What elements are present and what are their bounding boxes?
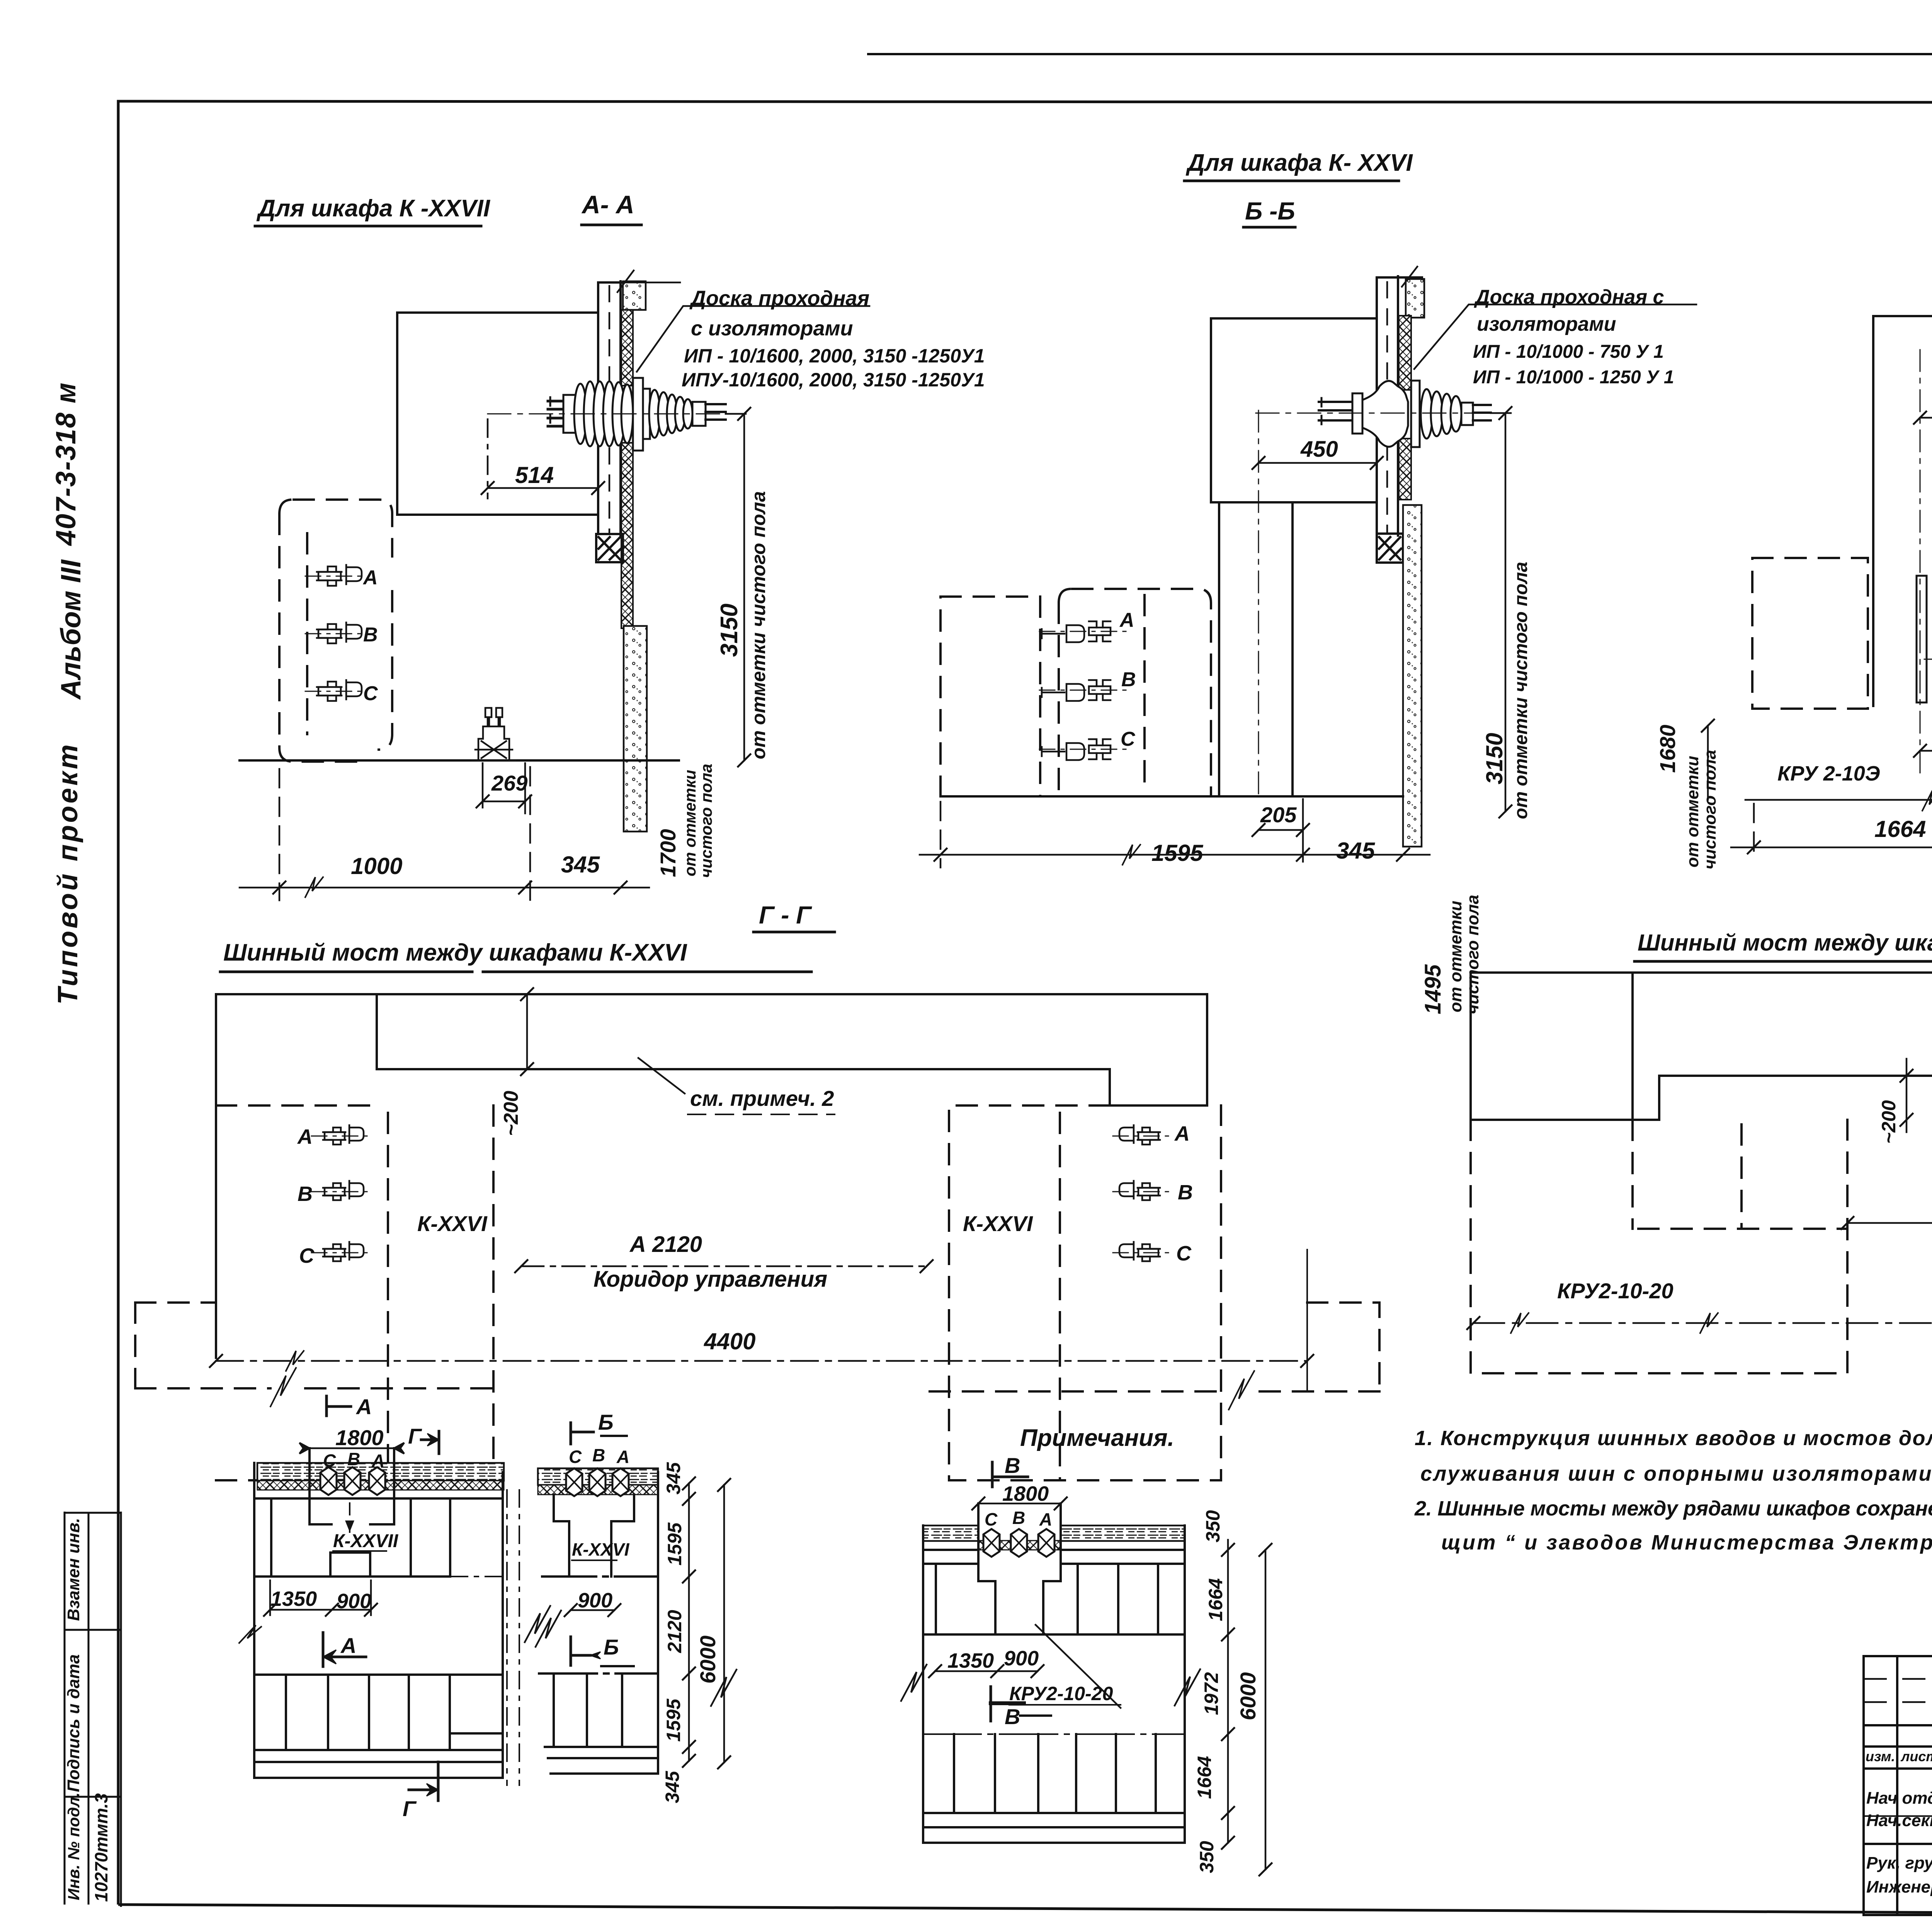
outer dashed boundary bottom-right	[930, 1303, 1379, 1391]
svg-text:изоляторами: изоляторами	[1477, 313, 1616, 335]
body	[539, 1472, 658, 1774]
svg-text:1800: 1800	[1002, 1482, 1049, 1505]
svg-text:345: 345	[663, 1462, 684, 1495]
svg-text:чистого пола: чистого пола	[1701, 750, 1719, 869]
svg-text:345: 345	[662, 1770, 683, 1803]
svg-text:от отметки: от отметки	[1446, 901, 1465, 1012]
title Для шкафа К-XXVII	[256, 190, 634, 222]
floor hatch bands	[923, 1526, 978, 1541]
flange at wall	[633, 378, 643, 451]
dashed cabinet К-XXVII	[279, 500, 392, 762]
chamber box below	[554, 1495, 634, 1521]
DRAWING-C	[1655, 118, 1932, 913]
svg-text:Г - Г: Г - Г	[759, 901, 812, 929]
svg-text:A: A	[1039, 1509, 1052, 1529]
svg-text:Доска проходная с: Доска проходная с	[1474, 286, 1664, 308]
svg-text:A: A	[1119, 609, 1134, 631]
svg-text:350: 350	[1202, 1510, 1224, 1543]
svg-text:C: C	[985, 1509, 998, 1529]
main title block	[1864, 1656, 1932, 1915]
left ribs	[574, 384, 587, 444]
svg-text:К-XXVI: К-XXVI	[417, 1211, 488, 1236]
svg-text:К-XXVI: К-XXVI	[572, 1539, 630, 1560]
svg-text:Рук. груп.: Рук. груп.	[1866, 1854, 1932, 1872]
svg-text:Б: Б	[598, 1410, 614, 1434]
dim ~200	[1900, 1059, 1913, 1132]
section marker Б top	[571, 1423, 594, 1444]
dashed cabinet boxes	[940, 589, 1211, 796]
label Доска проходная с изоляторами	[1473, 286, 1674, 388]
svg-text:В: В	[1005, 1704, 1020, 1729]
crosshatch panel below bushing	[1399, 439, 1411, 500]
bushing centerline	[488, 413, 746, 415]
svg-text:Шинный мост между шкафам: Шинный мост между шкафами КРУ2 -10 -20 т…	[1638, 930, 1932, 956]
bushing ИП-10/1000 conical	[1319, 381, 1491, 447]
svg-text:514: 514	[515, 462, 554, 488]
svg-text:B: B	[363, 624, 378, 646]
enclosure outline	[1873, 316, 1932, 706]
svg-text:К-XXVI: К-XXVI	[963, 1211, 1033, 1236]
dim ~200	[521, 988, 533, 1075]
break marks	[901, 1665, 927, 1701]
dim 205	[1252, 799, 1309, 862]
wall crosshatch band	[257, 1481, 504, 1490]
svg-text:В: В	[1005, 1453, 1020, 1478]
svg-text:1664: 1664	[1205, 1578, 1226, 1621]
svg-text:Нач отд.: Нач отд.	[1866, 1789, 1932, 1808]
svg-text:А 2120: А 2120	[629, 1232, 702, 1257]
right cone ribs	[649, 390, 660, 438]
floor hatch band	[538, 1468, 658, 1485]
vertical dim 3150 to floor	[726, 408, 750, 767]
svg-text:Примечания.: Примечания.	[1020, 1425, 1174, 1451]
section marker Г bottom	[409, 1762, 438, 1801]
left bus bars	[311, 1125, 370, 1145]
svg-text:A: A	[616, 1447, 629, 1467]
support pedestal below floor	[472, 708, 515, 760]
DRAWING-B	[920, 150, 1696, 1014]
svg-text:1595: 1595	[1151, 840, 1204, 866]
foundation box	[1377, 534, 1403, 563]
right pins	[706, 404, 726, 420]
bottom dims 1595 / 345	[920, 802, 1430, 867]
bus support column	[1917, 576, 1927, 702]
svg-text:с изоляторами: с изоляторами	[691, 317, 853, 340]
wall board K-XXVII	[598, 281, 623, 536]
svg-text:350: 350	[1196, 1841, 1218, 1873]
svg-text:1664: 1664	[1874, 816, 1926, 842]
svg-text:ИП - 10/1000 - 1250 У 1: ИП - 10/1000 - 1250 У 1	[1473, 367, 1674, 388]
svg-text:900: 900	[578, 1589, 612, 1612]
left cabinet dashed	[1471, 1120, 1847, 1373]
bottom dims 1664 / 350	[1731, 804, 1932, 854]
svg-text:3150: 3150	[716, 604, 743, 657]
svg-text:1664: 1664	[1194, 1756, 1215, 1799]
svg-text:К-XXVII: К-XXVII	[333, 1531, 399, 1551]
svg-text:345: 345	[1336, 838, 1376, 864]
floor reference line	[1745, 791, 1932, 811]
dims 1350 900	[270, 1587, 371, 1613]
svg-text:B: B	[1012, 1508, 1025, 1528]
svg-text:205: 205	[1260, 803, 1297, 827]
svg-text:B: B	[347, 1449, 360, 1469]
dim 514	[481, 419, 604, 498]
bus bars A B C	[305, 565, 363, 586]
svg-text:Инв. № подл.: Инв. № подл.	[65, 1793, 83, 1900]
svg-text:ИП - 10/1000 - 750 У 1: ИП - 10/1000 - 750 У 1	[1473, 342, 1664, 362]
svg-text:6000: 6000	[1236, 1672, 1260, 1721]
phase labels C B A	[323, 1449, 384, 1471]
room box	[1211, 318, 1377, 502]
svg-text:1495: 1495	[1420, 964, 1446, 1014]
svg-text:C: C	[363, 682, 378, 705]
svg-text:B: B	[592, 1445, 605, 1465]
wall top concrete stub	[623, 281, 646, 310]
svg-text:служивания шин с опорными: служивания шин с опорными изоляторами, а…	[1420, 1462, 1932, 1485]
crosshatch panel above bushing	[1399, 316, 1411, 390]
section marker B top	[992, 1462, 1028, 1487]
dims 1350 900	[947, 1647, 1039, 1672]
svg-text:407-3-318 м: 407-3-318 м	[51, 382, 82, 546]
section marker Б mid	[571, 1637, 600, 1665]
svg-text:B: B	[1121, 668, 1136, 691]
svg-text:изм.: изм.	[1866, 1748, 1895, 1764]
svg-text:Нач.сект.: Нач.сект.	[1866, 1811, 1932, 1830]
svg-text:900: 900	[1004, 1647, 1039, 1670]
chamber box	[978, 1503, 1061, 1581]
left margin table	[65, 1512, 121, 1907]
svg-text:~200: ~200	[500, 1091, 522, 1136]
svg-text:от отметки: от отметки	[1683, 756, 1702, 867]
bridge outline	[1471, 973, 1932, 1120]
svg-text:Инженер: Инженер	[1866, 1878, 1932, 1896]
svg-text:4400: 4400	[704, 1328, 755, 1354]
svg-text:Альбом III: Альбом III	[56, 559, 87, 700]
svg-text:от отметки чистого пола: от отметки чистого пола	[748, 491, 769, 759]
crosshatched panel above bushing	[621, 310, 633, 386]
break mark left	[239, 1625, 261, 1643]
phase labels	[569, 1445, 629, 1467]
wall top concrete stub	[1406, 279, 1424, 318]
right tick vertical	[1306, 1250, 1308, 1391]
svg-text:КРУ2-10-20: КРУ2-10-20	[1557, 1279, 1673, 1303]
svg-text:Б -Б: Б -Б	[1245, 197, 1295, 225]
dim 1495 rotated	[1420, 895, 1482, 1014]
left dashed box KRU2-10E	[1752, 558, 1868, 709]
bushing U-A (ИП-10/1600)	[548, 378, 726, 451]
svg-text:Б: Б	[604, 1635, 619, 1659]
svg-text:10270тмт.3: 10270тмт.3	[91, 1793, 111, 1902]
right bus bars	[1113, 1125, 1172, 1145]
break mark right	[711, 1670, 736, 1706]
svg-text:чистого пола: чистого пола	[697, 764, 715, 878]
svg-text:C: C	[299, 1244, 315, 1267]
dim extension dash-dot	[1920, 350, 1921, 773]
svg-text:6000: 6000	[696, 1636, 720, 1684]
leader to board label	[637, 306, 869, 372]
left cabinet dashed	[216, 1105, 493, 1480]
crosshatched panel below bushing	[621, 443, 633, 628]
floor line	[943, 795, 1403, 798]
svg-text:от отметки чистого пола: от отметки чистого пола	[1511, 562, 1531, 819]
svg-text:ИП - 10/1600, 2000, 3150 -1250: ИП - 10/1600, 2000, 3150 -1250У1	[684, 345, 985, 367]
svg-text:450: 450	[1300, 437, 1338, 462]
corridor dimension	[515, 1260, 933, 1272]
dim 1700 from floor	[656, 764, 715, 878]
floor line	[240, 759, 679, 762]
svg-text:C: C	[569, 1447, 582, 1467]
section marker A mid	[323, 1633, 366, 1667]
svg-text:Типовой проект: Типовой проект	[53, 742, 83, 1005]
dim 5300	[1467, 1313, 1932, 1333]
cabinet frame columns below room box	[1219, 502, 1293, 795]
svg-text:А: А	[340, 1633, 356, 1658]
DRAWING-E	[1467, 930, 1932, 1373]
svg-text:А: А	[355, 1395, 372, 1419]
svg-text:чистого пола: чистого пола	[1463, 895, 1482, 1014]
wall board	[1377, 276, 1422, 536]
body	[923, 1526, 1185, 1843]
hexes	[566, 1468, 582, 1496]
svg-text:Г: Г	[408, 1424, 422, 1448]
svg-text:см. примеч. 2: см. примеч. 2	[690, 1086, 834, 1111]
plan hex bushings	[320, 1467, 337, 1495]
DRAWING-D	[135, 901, 1379, 1480]
svg-text:Доска проходная: Доска проходная	[689, 287, 869, 310]
svg-text:2. Шинные мосты между ря: 2. Шинные мосты между рядами шкафов сохр…	[1414, 1497, 1932, 1520]
svg-text:A: A	[297, 1125, 313, 1148]
svg-text:1972: 1972	[1201, 1672, 1222, 1715]
left margin rotated title	[51, 382, 87, 1005]
svg-text:~200: ~200	[1878, 1100, 1900, 1144]
svg-text:Подпись и дата: Подпись и дата	[64, 1654, 83, 1792]
bus bars A B C (mirrored style)	[1039, 621, 1132, 642]
svg-text:C: C	[1121, 728, 1136, 750]
bottom dims 1000 / 345	[240, 767, 649, 900]
svg-text:1680: 1680	[1655, 724, 1680, 773]
concrete wall strip below	[624, 626, 647, 832]
svg-text:B: B	[298, 1182, 313, 1206]
outer dashed boundary bottom-left	[135, 1303, 498, 1388]
dim 926	[1914, 711, 1932, 850]
svg-text:1000: 1000	[351, 853, 402, 879]
bushing centerline	[1256, 413, 1507, 414]
svg-text:А- А: А- А	[581, 190, 634, 219]
right dim column	[1222, 1540, 1272, 1876]
room box	[397, 313, 598, 515]
dim 4400	[210, 1351, 1313, 1371]
svg-text:345: 345	[561, 852, 600, 878]
concrete wall strip below	[1403, 505, 1422, 847]
svg-text:1595: 1595	[664, 1522, 685, 1565]
hexes	[983, 1529, 1000, 1557]
svg-text:КРУ 2-10Э: КРУ 2-10Э	[1777, 762, 1880, 785]
svg-text:B: B	[1178, 1181, 1193, 1204]
TITLEBLOCK	[1864, 1529, 1932, 1916]
dim 1680 left rotated	[1702, 719, 1714, 800]
bushing chamber box	[310, 1448, 394, 1524]
svg-text:1700: 1700	[656, 829, 680, 877]
svg-text:1350: 1350	[270, 1587, 317, 1611]
header row small	[1866, 1748, 1932, 1764]
dim 1176	[1914, 412, 1932, 424]
bridge outline	[216, 994, 1207, 1358]
name rows	[1866, 1787, 1932, 1901]
DRAWING-A	[240, 190, 985, 900]
left pins	[548, 401, 569, 426]
NOTES	[1020, 1425, 1932, 1554]
svg-text:Г: Г	[403, 1796, 417, 1821]
svg-text:A: A	[362, 566, 378, 589]
cabinet axis dash-dot	[1258, 410, 1259, 796]
svg-text:Взамен инв.: Взамен инв.	[64, 1518, 83, 1621]
section marker A top	[327, 1396, 351, 1416]
svg-text:2120: 2120	[664, 1610, 685, 1653]
svg-text:Для шкафа К- XXVI: Для шкафа К- XXVI	[1185, 150, 1413, 176]
plan body	[254, 1463, 503, 1778]
svg-text:1800: 1800	[335, 1425, 384, 1450]
bus bars C and A	[1924, 649, 1932, 669]
svg-text:Коридор управления: Коридор управления	[594, 1267, 827, 1292]
dim 1972	[1841, 1217, 1932, 1229]
svg-text:C: C	[1176, 1242, 1192, 1265]
break marks between plans	[525, 1606, 550, 1642]
dim 269	[476, 763, 531, 813]
center dash gap columns	[507, 1490, 519, 1785]
floor hatch band	[257, 1463, 504, 1481]
label Доска проходная с изоляторами	[682, 287, 985, 391]
svg-text:Шинный мост между шкафами: Шинный мост между шкафами К-XXVI	[223, 939, 687, 966]
svg-text:от отметки: от отметки	[681, 770, 699, 876]
foundation box	[596, 534, 623, 562]
dim 450	[1252, 457, 1383, 469]
section marker B mid	[991, 1687, 1024, 1721]
svg-text:Для шкафа К -XXVII: Для шкафа К -XXVII	[256, 195, 491, 222]
svg-text:1595: 1595	[663, 1698, 684, 1742]
svg-text:лист: лист	[1900, 1748, 1932, 1764]
right dim column	[683, 1477, 730, 1769]
svg-text:1350: 1350	[947, 1649, 994, 1672]
svg-text:3150: 3150	[1481, 733, 1507, 784]
leader to label	[1414, 304, 1696, 369]
svg-text:A: A	[1174, 1122, 1190, 1145]
title Для шкафа К-XXVI	[1185, 150, 1413, 225]
PLANS	[239, 1395, 1272, 1876]
phase labels	[985, 1508, 1052, 1529]
see note 2 leader	[638, 1058, 685, 1094]
svg-text:269: 269	[491, 771, 527, 795]
svg-text:ИПУ-10/1600, 2000, 3150 -1250У: ИПУ-10/1600, 2000, 3150 -1250У1	[682, 369, 985, 391]
right cabinet dashed	[949, 1105, 1221, 1480]
vertical dim 3150	[1491, 407, 1512, 818]
